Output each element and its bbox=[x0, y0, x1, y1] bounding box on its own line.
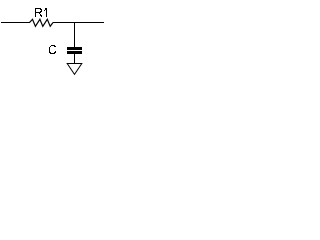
label R1 : letter R bbox=[35, 8, 42, 17]
wire bbox=[1, 22, 30, 24]
ground bbox=[67, 64, 82, 75]
resistor R1 bbox=[30, 19, 54, 26]
capacitor C bottom plate bbox=[67, 51, 82, 54]
wire bbox=[74, 54, 76, 63]
label R1 : digit 1 bbox=[44, 8, 47, 17]
wire bbox=[53, 22, 104, 24]
capacitor C top plate bbox=[67, 47, 82, 50]
label C bbox=[49, 45, 56, 54]
node junction wire bbox=[74, 23, 76, 48]
